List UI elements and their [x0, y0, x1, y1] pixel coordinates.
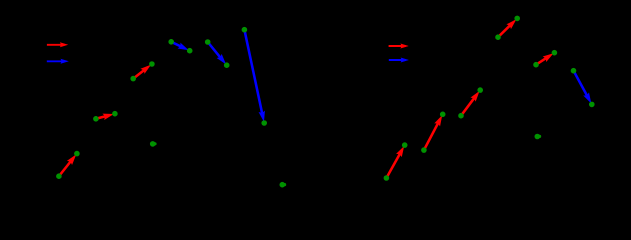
point R-red-2-end: [440, 112, 445, 117]
point R-red-5-end: [552, 50, 557, 55]
point L-blue-2-end: [224, 63, 229, 68]
point L-blue-3-start: [242, 27, 247, 32]
point R-red-1-start: [384, 176, 389, 181]
point L-blue-3-end: [262, 121, 267, 126]
point L-red-3-start: [131, 76, 136, 81]
point L-blue-1-start: [169, 39, 174, 44]
point L-red-3-end: [149, 62, 154, 67]
legend arrow L-legend-blue: [47, 59, 68, 63]
point R-red-2-start: [421, 148, 426, 153]
point R-lone-1 (zero-displacement pair): [535, 134, 541, 139]
displacement arrow R-red-5: [536, 54, 553, 65]
legend arrow L-legend-red: [47, 43, 67, 47]
point R-red-5-start: [534, 62, 539, 67]
legend arrow R-legend-red: [389, 44, 408, 48]
displacement arrow L-blue-2: [207, 41, 225, 63]
point L-red-1-end: [74, 151, 79, 156]
point R-red-4-start: [496, 35, 501, 40]
point R-blue-1-start: [571, 68, 576, 73]
point L-red-2-start: [93, 116, 98, 121]
point R-blue-1-end: [589, 102, 594, 107]
displacement arrow R-red-1: [386, 147, 404, 178]
point R-red-3-end: [478, 88, 483, 93]
point L-lone-1 (zero-displacement pair): [150, 141, 156, 146]
displacement arrow R-red-4: [497, 20, 515, 38]
displacement arrow L-red-1: [58, 155, 75, 176]
point L-lone-2 (zero-displacement pair): [280, 182, 286, 187]
point L-red-1-start: [56, 174, 61, 179]
displacement arrow L-blue-3: [244, 30, 265, 121]
legend arrow R-legend-blue: [389, 58, 408, 62]
point R-red-1-end: [402, 143, 407, 148]
point R-red-3-start: [459, 113, 464, 118]
displacement arrow R-red-2: [423, 116, 441, 150]
point L-blue-2-start: [205, 40, 210, 45]
displacement arrow R-blue-1: [573, 70, 591, 102]
displacement arrow L-blue-1: [171, 41, 188, 50]
point R-red-4-end: [515, 16, 520, 21]
displacement arrow L-red-2: [96, 114, 113, 120]
point L-blue-1-end: [187, 48, 192, 53]
displacement arrow L-red-3: [133, 65, 150, 79]
displacement arrow R-red-3: [460, 92, 478, 116]
point L-red-2-end: [112, 111, 117, 116]
